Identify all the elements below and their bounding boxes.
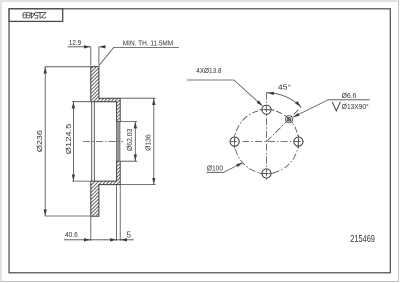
disc section top half <box>91 67 120 122</box>
45deg angle arc <box>267 82 301 107</box>
dimension 12.9 <box>68 38 105 65</box>
svg-text:Ø62.03: Ø62.03 <box>125 129 134 151</box>
dimension D124.5 <box>64 102 90 181</box>
svg-text:40.6: 40.6 <box>65 230 78 239</box>
label D6.6 countersink with leader <box>293 91 370 117</box>
min thickness note <box>99 38 179 65</box>
inner silhouette line 1 <box>91 102 93 181</box>
svg-text:MIN. TH. 11.5MM: MIN. TH. 11.5MM <box>123 38 173 47</box>
disc section bottom half <box>91 161 120 216</box>
bolt circle D100 <box>235 110 299 174</box>
dimension D136 <box>121 98 156 184</box>
diagonal centerline 45deg <box>267 108 301 142</box>
svg-text:Ø13X90°: Ø13X90° <box>342 102 369 111</box>
svg-text:Ø124.5: Ø124.5 <box>64 124 73 155</box>
dimension D62.03 <box>121 122 138 162</box>
bolt hole left <box>230 135 239 149</box>
dimension 40.6 <box>64 185 134 241</box>
title box <box>9 9 63 22</box>
inner silhouette line 2 <box>93 102 95 181</box>
svg-text:Ø236: Ø236 <box>35 130 44 152</box>
label D100 with leader <box>206 163 242 173</box>
svg-text:Ø100: Ø100 <box>207 164 223 173</box>
svg-text:Ø136: Ø136 <box>143 134 152 151</box>
svg-text:4XØ13.8: 4XØ13.8 <box>196 66 221 75</box>
vertical centerline <box>266 93 268 182</box>
label 4XD13.8 with leader <box>187 66 263 106</box>
svg-text:12.9: 12.9 <box>69 38 81 47</box>
svg-text:45°: 45° <box>278 82 291 91</box>
bolt hole top <box>259 105 273 114</box>
svg-text:5: 5 <box>127 230 132 239</box>
svg-text:215469: 215469 <box>22 10 47 20</box>
bolt hole bottom <box>259 169 273 178</box>
svg-text:Ø6.6: Ø6.6 <box>342 91 357 100</box>
bolt hole right <box>294 135 303 149</box>
svg-text:215469: 215469 <box>350 234 375 245</box>
countersunk hole 45deg <box>285 115 293 123</box>
dimension 5 <box>120 185 131 241</box>
dimension D236 <box>35 67 90 216</box>
section axis centerline <box>83 140 123 142</box>
bore bar <box>116 122 120 162</box>
horizontal centerline <box>230 141 305 143</box>
